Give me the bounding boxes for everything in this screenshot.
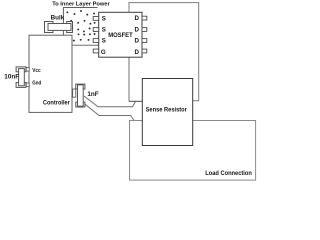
MOSFET pin pads left (S,S,S,G) [93, 17, 99, 53]
10nF capacitor body [19, 69, 25, 86]
svg-text:S: S [102, 15, 106, 22]
svg-text:S: S [102, 38, 106, 45]
1nF capacitor body [78, 85, 84, 106]
svg-text:S: S [102, 27, 106, 34]
svg-text:Controller: Controller [43, 100, 71, 106]
sense resistor box [142, 79, 192, 146]
wire: drain/sense junction closing line [129, 100, 142, 102]
svg-text:10nF: 10nF [4, 74, 19, 80]
via field box (inner layer power vias) [63, 8, 97, 36]
svg-text:D: D [135, 49, 140, 56]
svg-text:G: G [101, 49, 106, 56]
10nF pad on controller edge (top) [26, 68, 29, 72]
controller box [29, 35, 72, 112]
svg-text:To Inner Layer Power: To Inner Layer Power [52, 1, 110, 7]
svg-text:D: D [135, 38, 140, 45]
svg-text:Sense Resistor: Sense Resistor [146, 108, 188, 114]
wire: lower kelvin sense trace from 1nF to load node [85, 104, 134, 121]
svg-text:Vcc: Vcc [32, 68, 41, 74]
10nF pad on controller edge (bottom) [26, 83, 29, 87]
wire: MOSFET top to inner layer power loop, down right side to sense resistor [129, 3, 199, 101]
wire: MOSFET drain down to sense resistor junction [128, 57, 130, 101]
MOSFET pin pads right (D,D,D,D) [142, 16, 147, 53]
bulk capacitor right pad [67, 22, 73, 33]
svg-text:MOSFET: MOSFET [108, 32, 133, 39]
svg-text:Gnd: Gnd [32, 80, 41, 86]
MOSFET body [99, 12, 142, 57]
bulk capacitor left pad [45, 22, 54, 33]
svg-text:D: D [135, 15, 140, 22]
1nF pad on controller edge [73, 89, 76, 97]
10nF capacitor bottom pad [16, 83, 26, 88]
via dots [66, 10, 95, 42]
wire: controller gate to MOSFET [72, 44, 99, 46]
10nF capacitor top pad [16, 67, 26, 72]
load connection box [130, 121, 256, 181]
svg-text:Load Connection: Load Connection [205, 171, 252, 177]
1nF capacitor top pad [76, 84, 85, 89]
bulk capacitor body [48, 24, 71, 31]
svg-text:D: D [135, 26, 140, 33]
1nF capacitor bottom pad [76, 102, 85, 107]
svg-text:1nF: 1nF [87, 92, 99, 98]
wire: upper kelvin sense trace from 1nF to sense resistor drain node [84, 96, 136, 107]
svg-text:Bulk: Bulk [51, 16, 65, 22]
